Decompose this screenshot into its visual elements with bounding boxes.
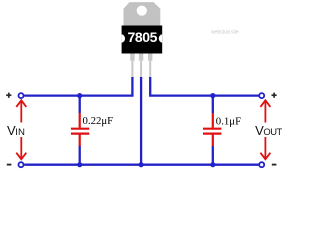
svg-text:webstud.site: webstud.site: [211, 30, 239, 36]
wire: pin1 to top-left rail: [24, 77, 132, 96]
svg-text:OUT: OUT: [263, 126, 282, 137]
minus sign (output): [272, 164, 277, 166]
terminal VOUT-: [259, 162, 264, 167]
wire: pin3 to top-right rail: [150, 77, 258, 96]
svg-text:IN: IN: [15, 127, 25, 138]
wire: C2 bottom lead (blue): [212, 146, 214, 165]
junction dot C2 bottom: [210, 162, 215, 167]
svg-text:0.1μF: 0.1μF: [216, 115, 241, 127]
capacitor C1 0.22uF: [71, 113, 89, 146]
regulator U1 7805 TO-220 package tab: [124, 2, 161, 26]
pin 2 (ground): [139, 54, 143, 61]
wire: bottom rail: [24, 164, 258, 166]
wire: C2 top lead (blue): [212, 96, 214, 113]
plus sign (input): [6, 93, 11, 98]
pin 1 (input): [130, 54, 134, 61]
junction dot C1 bottom: [77, 162, 82, 167]
capacitor C2 0.1uF: [203, 113, 221, 146]
terminal VIN+: [19, 93, 24, 98]
junction dot ground pin / bottom rail: [139, 162, 144, 167]
wire: C1 top lead (blue): [79, 96, 81, 113]
body notch left: [122, 34, 125, 43]
pin 3 (output): [148, 54, 152, 61]
VOUT arrow (red, double headed): [260, 100, 270, 159]
VIN arrow (red, double headed): [16, 100, 26, 159]
junction dot C1 top: [77, 93, 82, 98]
body notch right: [159, 34, 162, 43]
regulator body: [122, 26, 163, 54]
svg-text:7805: 7805: [128, 29, 158, 45]
minus sign (input): [7, 164, 12, 166]
svg-text:0.22μF: 0.22μF: [83, 115, 114, 127]
wire: pin2 ground down: [140, 77, 142, 165]
terminal VIN-: [19, 162, 24, 167]
junction dot C2 top: [210, 93, 215, 98]
wire: C1 bottom lead (blue): [79, 146, 81, 165]
plus sign (output): [272, 93, 277, 98]
terminal VOUT+: [259, 93, 264, 98]
mounting hole: [137, 6, 147, 16]
